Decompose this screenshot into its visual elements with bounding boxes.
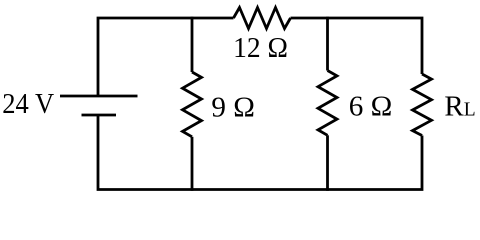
- wire 6-ohm branch top: [326, 17, 329, 71]
- svg-text:9 Ω: 9 Ω: [211, 91, 255, 123]
- wire top-right segment and right upper wire: [291, 18, 423, 74]
- resistor 12 ohm (horizontal zigzag): [234, 8, 291, 29]
- wire 9-ohm branch bottom: [191, 137, 194, 191]
- battery V1 24V (plates): [60, 96, 138, 115]
- svg-text:6 Ω: 6 Ω: [349, 91, 393, 123]
- resistor RL (vertical zigzag): [413, 74, 432, 136]
- resistor 9 ohm (vertical zigzag): [183, 72, 202, 137]
- resistor 6 ohm (vertical zigzag): [318, 71, 337, 136]
- wire 9-ohm branch top: [191, 17, 194, 72]
- wire 6-ohm branch bottom: [326, 135, 329, 191]
- wire top-left segment and left upper wire: [98, 18, 234, 96]
- svg-text:RL: RL: [444, 91, 475, 123]
- svg-text:24 V: 24 V: [2, 88, 54, 120]
- wire left lower, bottom rail, right lower: [98, 115, 422, 190]
- svg-text:12 Ω: 12 Ω: [233, 32, 288, 64]
